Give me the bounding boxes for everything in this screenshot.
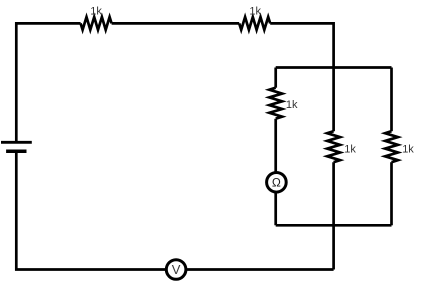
svg-text:1k: 1k — [402, 143, 414, 155]
wire top rail to R3 — [274, 68, 277, 88]
wire R2 to top-right corner down to R4 — [270, 23, 333, 131]
wire R3 through ohmmeter to bottom rail — [274, 119, 277, 226]
wire R1 to R2 — [112, 22, 240, 25]
wire bottom: junction through voltmeter to battery negative — [16, 152, 333, 269]
svg-text:Ω: Ω — [272, 175, 281, 189]
resistor R4 1k (middle branch) — [327, 131, 340, 162]
wire R5 to bottom rail — [390, 162, 393, 225]
wire battery positive to top-left corner to R1 — [16, 23, 80, 141]
resistor R5 1k (right branch) — [385, 131, 398, 162]
svg-text:1k: 1k — [286, 99, 298, 111]
resistor R1 1k (top left) — [81, 17, 112, 30]
resistor R2 1k (top middle) — [239, 17, 270, 30]
voltmeter M2 circle — [166, 260, 186, 280]
svg-text:V: V — [172, 262, 181, 277]
svg-text:1k: 1k — [249, 6, 261, 18]
battery B1 long plate — [1, 141, 32, 144]
wire R4 to bottom wire junction — [332, 162, 335, 269]
wire top rail to R5 — [390, 68, 393, 132]
battery B1 short plate — [6, 149, 26, 153]
ohmmeter M1 circle — [267, 173, 287, 193]
svg-text:1k: 1k — [344, 143, 356, 155]
svg-text:1k: 1k — [90, 6, 102, 18]
wire parallel-network bottom rail — [276, 224, 392, 227]
wire parallel-network top rail — [276, 66, 392, 69]
resistor R3 1k (left branch) — [269, 88, 282, 119]
